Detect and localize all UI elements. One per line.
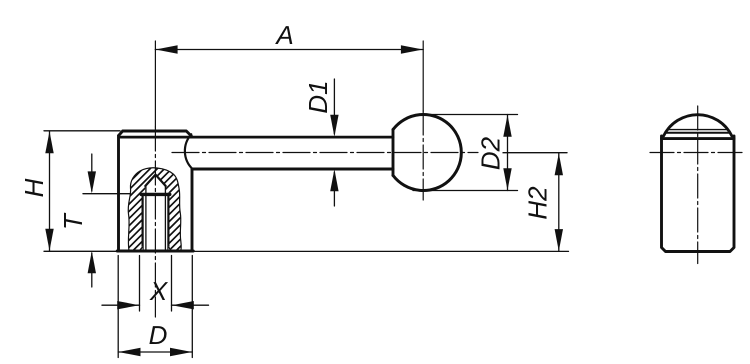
dimension T xyxy=(83,154,130,287)
end view: centerlines xyxy=(697,106,699,264)
ball xyxy=(393,114,461,190)
tapped hole white interior xyxy=(141,174,170,251)
svg-text:A: A xyxy=(274,20,293,50)
hatch section lines xyxy=(37,162,272,253)
ball flat xyxy=(392,130,395,176)
end view: top face edge xyxy=(668,129,728,131)
end view: chamfer edge xyxy=(665,132,730,134)
svg-text:H2: H2 xyxy=(523,186,553,220)
drill point cone xyxy=(145,175,165,186)
svg-text:X: X xyxy=(149,276,169,306)
dimension A xyxy=(155,49,423,51)
label D2 xyxy=(476,136,506,170)
hatch boundary (freehand break line) xyxy=(128,168,181,251)
ball centerline vertical xyxy=(422,41,424,111)
arm left cap arc xyxy=(185,134,193,169)
end view: top edge xyxy=(662,137,735,140)
hub outline xyxy=(117,131,193,251)
dimension H2 xyxy=(193,153,569,252)
end view: cylinder body xyxy=(662,136,735,252)
hub centerline xyxy=(154,41,156,127)
drill hole lines (thin) xyxy=(146,186,166,250)
dimension D xyxy=(118,256,192,358)
svg-text:D2: D2 xyxy=(476,136,506,170)
arm bottom edge xyxy=(192,168,393,171)
hub top chamfer line / arm top edge xyxy=(119,136,393,139)
end view: ball dome arc xyxy=(664,115,732,136)
thread depth bar xyxy=(141,193,170,196)
svg-text:T: T xyxy=(58,212,88,230)
arm axis centerline xyxy=(172,152,478,154)
dimension D2 xyxy=(413,115,518,191)
dimension X xyxy=(102,256,209,312)
dimension D1 xyxy=(333,79,335,206)
svg-text:D: D xyxy=(149,320,168,350)
thread major diameter lines (thick) xyxy=(143,196,169,250)
hole entry chamfer xyxy=(138,246,173,251)
svg-text:D1: D1 xyxy=(303,80,333,113)
dimension H xyxy=(44,131,120,252)
svg-text:H: H xyxy=(19,178,49,197)
